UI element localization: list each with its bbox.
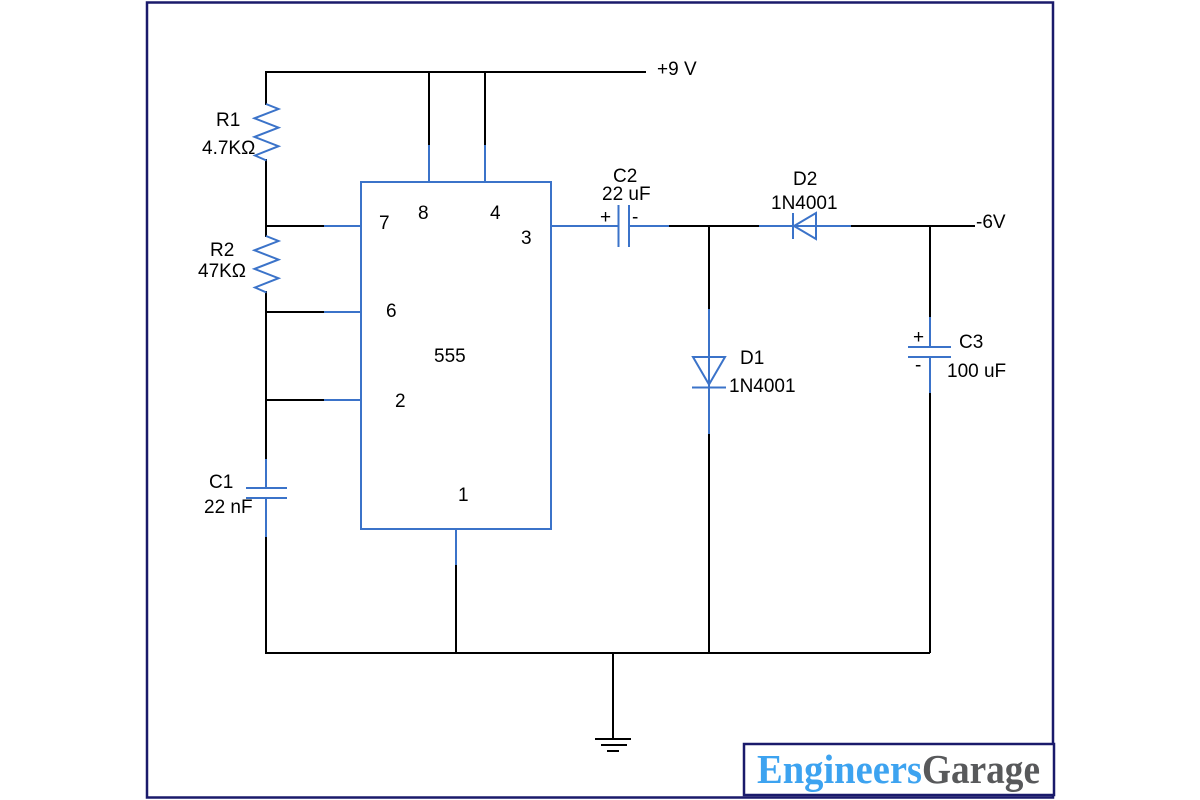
op-amp U1 555 timer box	[361, 182, 551, 529]
wire pin2 stub blue	[324, 399, 361, 401]
wire pin4 riser black	[484, 71, 486, 146]
svg-text:6: 6	[386, 301, 397, 322]
svg-text:8: 8	[418, 203, 429, 224]
wire pin8 riser black	[428, 71, 430, 146]
wire pin2 tap black	[266, 399, 325, 401]
resistor R1	[255, 104, 279, 161]
capacitor C3	[929, 317, 931, 346]
wire C3 branch top black	[929, 226, 931, 318]
svg-text:22 uF: 22 uF	[602, 184, 651, 205]
capacitor C2	[618, 205, 620, 247]
wire C1 to bottom rail	[265, 536, 267, 654]
svg-text:3: 3	[521, 228, 532, 249]
svg-text:R2: R2	[210, 240, 234, 261]
svg-text:D1: D1	[740, 348, 764, 369]
wire pin1 drop black	[455, 564, 457, 653]
svg-text:22 nF: 22 nF	[204, 497, 253, 518]
wire left rail top segment	[265, 71, 267, 105]
wire R2 to C1 segment	[265, 291, 267, 460]
svg-text:4.7KΩ: 4.7KΩ	[202, 138, 255, 159]
svg-text:1: 1	[458, 485, 469, 506]
svg-text:+: +	[600, 207, 611, 228]
svg-text:D2: D2	[793, 169, 817, 190]
capacitor C1	[265, 459, 267, 487]
svg-text:4: 4	[490, 203, 501, 224]
wire C2 to node blue	[629, 225, 669, 227]
wire R1 to R2 segment	[265, 159, 267, 237]
wire pin8 stub blue	[428, 145, 430, 182]
wire pin6 tap black	[266, 311, 325, 313]
svg-text:7: 7	[379, 213, 390, 234]
wire bottom ground rail	[265, 652, 930, 654]
svg-text:-: -	[632, 207, 638, 228]
svg-text:100 uF: 100 uF	[947, 361, 1006, 382]
wire pin1 stub blue	[455, 529, 457, 565]
svg-text:Garage: Garage	[922, 746, 1040, 792]
svg-text:C1: C1	[209, 472, 233, 493]
wire D1 branch bottom black	[708, 433, 710, 653]
wire pin4 stub blue	[484, 145, 486, 182]
wire +9V rail	[265, 71, 646, 73]
wire pin3 stub blue	[551, 225, 618, 227]
svg-text:+: +	[913, 327, 924, 348]
svg-text:555: 555	[434, 346, 466, 367]
ground stem	[612, 653, 614, 739]
svg-text:47KΩ: 47KΩ	[198, 261, 246, 282]
svg-text:-: -	[915, 355, 921, 376]
svg-text:1N4001: 1N4001	[771, 193, 838, 214]
ground bars	[595, 738, 631, 740]
svg-text:2: 2	[395, 391, 406, 412]
wire C3 branch bottom black	[929, 393, 931, 653]
wire pin3 net middle black	[668, 225, 760, 227]
resistor R2	[255, 236, 279, 293]
wire pin7 stub blue	[324, 225, 361, 227]
svg-text:C3: C3	[959, 332, 983, 353]
diode D1	[708, 309, 710, 434]
wire pin7 tap black	[266, 225, 325, 227]
wire pin6 stub blue	[324, 311, 361, 313]
svg-text:-6V: -6V	[976, 212, 1006, 233]
diode D2	[759, 225, 851, 227]
svg-text:1N4001: 1N4001	[729, 376, 796, 397]
wire -6V net black	[850, 225, 975, 227]
EngineersGarage watermark	[744, 744, 1054, 795]
svg-text:R1: R1	[216, 110, 240, 131]
svg-text:Engineers: Engineers	[757, 746, 922, 792]
svg-text:+9 V: +9 V	[657, 59, 697, 80]
wire D1 branch top black	[708, 226, 710, 310]
